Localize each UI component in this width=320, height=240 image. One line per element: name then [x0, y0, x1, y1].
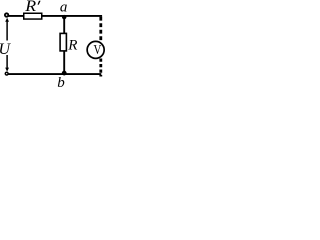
svg-text:a: a [60, 0, 68, 16]
svg-text:V: V [94, 42, 102, 58]
svg-text:R: R [67, 38, 77, 54]
svg-text:b: b [57, 75, 65, 91]
svg-text:R: R [24, 0, 36, 15]
svg-text:U: U [0, 41, 12, 58]
